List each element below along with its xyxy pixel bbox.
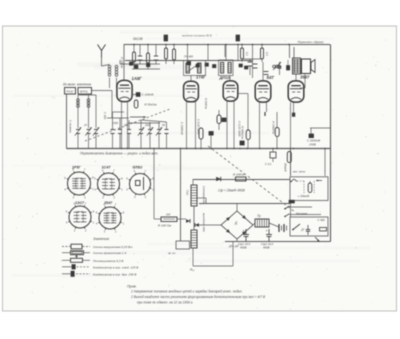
- svg-text:Сетка проволочная 1 А: Сетка проволочная 1 А: [93, 251, 126, 255]
- grid cap V1: [136, 93, 140, 97]
- wire TR1 to V5: [295, 74, 297, 81]
- wire y266: [193, 265, 233, 267]
- wire link row1: [107, 117, 129, 119]
- svg-text:зв. сн.: зв. сн.: [167, 252, 176, 255]
- wire left column: [66, 94, 68, 149]
- wire choke left: [253, 223, 255, 225]
- resistor R12: [287, 152, 291, 163]
- wire stub: [112, 112, 114, 118]
- resistor R2: [134, 100, 138, 108]
- capacitor C10 padder: [165, 129, 169, 131]
- capacitor blob C38: [245, 66, 248, 69]
- resistor R6: [173, 49, 176, 60]
- capacitor C20 electrolytic: [268, 229, 270, 234]
- svg-text:БПЧ1: БПЧ1: [80, 90, 88, 94]
- tube base diagram U4 1Э1Т: [69, 206, 91, 228]
- svg-text:56: 56: [162, 123, 165, 127]
- switch S3: [286, 214, 290, 217]
- svg-text:2W: 2W: [165, 213, 171, 217]
- IF transformer IFT2: [219, 60, 234, 76]
- wire screen link: [120, 63, 160, 65]
- svg-text:Сетевая обм.: Сетевая обм.: [202, 186, 206, 205]
- svg-text:выходная обм.: выходная обм.: [202, 213, 206, 232]
- terminal blob J1: [164, 35, 168, 41]
- wire link row2: [141, 120, 167, 122]
- wire chassis bus: [67, 148, 331, 150]
- resistor R11: [275, 128, 279, 137]
- diode D7: [195, 223, 199, 227]
- capacitor C6: [127, 129, 131, 131]
- wire IFT2 to V3: [229, 76, 231, 82]
- coil L2 antenna secondary: [115, 65, 118, 68]
- coil pack box K2: [78, 88, 92, 95]
- svg-text:3547: 3547: [104, 201, 113, 205]
- svg-text:анодное питание 90 В: анодное питание 90 В: [182, 34, 212, 38]
- wire V4 grid top: [262, 62, 264, 81]
- wire bridge bottom: [236, 239, 238, 242]
- diode D6: [186, 219, 190, 223]
- panel box PS1: [290, 177, 328, 201]
- svg-text:Конденсатор в кор. слюд. 125 В: Конденсатор в кор. слюд. 125 В: [93, 265, 138, 269]
- capacitor blob C34: [196, 64, 199, 67]
- capacitor C13d: [240, 141, 244, 145]
- dashed gang link: [85, 109, 170, 141]
- capacitor blob C30: [130, 62, 133, 65]
- svg-text:1А8Г: 1А8Г: [132, 76, 143, 81]
- coil L1 antenna primary: [108, 65, 111, 68]
- svg-text:2 Выход наиболее часто решени: 2 Выход наиболее часто решением форсиров…: [130, 295, 266, 299]
- svg-text:0,1: 0,1: [245, 52, 249, 56]
- capacitor C4: [111, 129, 115, 131]
- svg-text:1Т4Г: 1Т4Г: [196, 75, 206, 80]
- wire avc arrow: [130, 116, 146, 118]
- wire drop x290: [290, 149, 292, 177]
- switch S4: [293, 224, 300, 230]
- panel box PS2: [290, 217, 328, 236]
- wire choke right: [269, 223, 279, 227]
- wire link: [78, 94, 96, 96]
- legend paper cap symbol: [62, 273, 71, 275]
- wire B minus: [199, 203, 290, 205]
- wire box link: [92, 90, 113, 92]
- capacitor C3 trimmer: [94, 129, 98, 131]
- svg-text:бЛ5О: бЛ5О: [133, 166, 143, 170]
- wire V4 pin b: [266, 103, 268, 113]
- svg-text:Переключ—6(реж): Переключ—6(реж): [298, 40, 324, 44]
- wire IFT1 top left: [187, 44, 189, 61]
- svg-text:Тр: Тр: [257, 214, 261, 218]
- coil L3: [77, 95, 79, 128]
- wire mid tap: [197, 197, 206, 199]
- svg-text:ПЧ 465: ПЧ 465: [184, 55, 193, 59]
- wire TR1 lead a: [289, 45, 291, 59]
- capacitor C8 trimmer: [148, 129, 152, 131]
- capacitor C12: [154, 55, 158, 57]
- svg-text:б4Т: б4Т: [267, 75, 275, 80]
- wire link y123: [128, 122, 160, 124]
- svg-text:450В: 450В: [240, 246, 247, 250]
- wire V1 pin b: [127, 101, 129, 149]
- wire drop x290b: [290, 204, 292, 218]
- svg-text:R 500кОм: R 500кОм: [241, 126, 245, 139]
- wire bridge top: [236, 203, 238, 211]
- capacitor blob C31: [135, 65, 138, 68]
- svg-text:20мкФ: 20мкФ: [284, 162, 288, 172]
- svg-text:+ 20мкФ: + 20мкФ: [298, 194, 310, 198]
- vacuum tube V1 1А8Г: [117, 80, 132, 101]
- capacitor C18 below bus: [270, 152, 276, 158]
- svg-text:Переключатель диапазонов — уко: Переключатель диапазонов — укороч. и под…: [80, 152, 158, 156]
- svg-text:Сетка нагрузочная 0,25 Вт: Сетка нагрузочная 0,25 Вт: [93, 245, 133, 249]
- choke TR2: [255, 219, 269, 227]
- wire L1 bottom: [109, 78, 111, 89]
- bridge rectifier VD1-VD4: [221, 211, 253, 239]
- capacitor blob C32: [147, 64, 150, 67]
- svg-text:С 0,05 300В: С 0,05 300В: [197, 119, 201, 135]
- capacitor blob C23: [289, 200, 294, 203]
- wire drop x325: [324, 148, 326, 176]
- wire IFT1 to V2: [190, 76, 192, 82]
- switch S2: [286, 206, 290, 209]
- inductor W2: [191, 230, 197, 248]
- capacitor C2 trimmer: [87, 129, 91, 131]
- wire L1 top: [102, 65, 110, 67]
- capacitor blob C37: [239, 64, 242, 67]
- capacitor C14: [248, 61, 253, 63]
- svg-text:1 Напряжение питания анодных: 1 Напряжение питания анодных цепей и зар…: [131, 290, 243, 294]
- grid blob: [222, 118, 226, 122]
- resistor R8: [241, 48, 244, 59]
- coil pack box K1: [65, 88, 76, 95]
- wire heater drop: [153, 148, 155, 219]
- svg-text:+: +: [266, 229, 268, 233]
- vacuum tube V3 6Г7: [223, 81, 238, 101]
- svg-text:Д1—Д4: Д1—Д4: [228, 244, 239, 248]
- wire screen rail y60: [125, 60, 253, 62]
- svg-text:бА10В: бА10В: [133, 37, 143, 41]
- capacitor C9 trimmer: [157, 129, 161, 131]
- capacitor C21 electrolytic: [308, 183, 312, 193]
- svg-text:батарея: батарея: [296, 212, 308, 216]
- svg-text:Потенциометр 6,3 В: Потенциометр 6,3 В: [93, 259, 123, 263]
- capacitor C22: [307, 225, 309, 229]
- wire V3 pin a: [226, 101, 228, 148]
- wire L2 bottom: [116, 78, 118, 89]
- vacuum tube V5 3547: [288, 81, 304, 102]
- wire link2: [132, 68, 160, 70]
- wire drop x180: [180, 149, 182, 242]
- svg-text:Конденсатор в кор. бум. 250 В: Конденсатор в кор. бум. 250 В: [93, 272, 136, 276]
- capacitor C19 electrolytic: [245, 229, 247, 234]
- diode D5: [216, 177, 220, 181]
- output transformer TR1: [293, 58, 301, 74]
- wire IFT2 top: [225, 44, 227, 60]
- coil L5: [95, 95, 97, 128]
- svg-text:1Э1Т: 1Э1Т: [75, 201, 85, 205]
- wire V1 pin a: [121, 101, 123, 149]
- antenna W1: [101, 51, 103, 58]
- wire ps1 dash a: [303, 181, 305, 193]
- svg-text:30: 30: [124, 123, 127, 127]
- tube base diagram U5 3547: [99, 207, 121, 229]
- svg-text:3547: 3547: [300, 75, 310, 80]
- wire bottom return: [225, 241, 331, 243]
- capacitor C17: [309, 134, 314, 138]
- resistor R16: [320, 228, 327, 231]
- svg-text:R 1МОм: R 1МОм: [120, 57, 124, 68]
- svg-text:дл.волн. антенна: дл.волн. антенна: [63, 83, 91, 87]
- wire w2 bottom: [192, 248, 194, 266]
- svg-text:С 400: С 400: [318, 218, 326, 222]
- wire B rectified: [193, 179, 290, 181]
- capacitor C39: [279, 62, 281, 66]
- svg-text:150В: 150В: [309, 143, 316, 147]
- capacitor blob C36: [213, 65, 216, 68]
- svg-text:200: 200: [144, 123, 150, 127]
- svg-text:R 150кОм: R 150кОм: [272, 121, 276, 134]
- legend wirewound symbol: [62, 252, 70, 254]
- capacitor C7 osc tuning: [139, 129, 143, 131]
- tube base diagram U1 1Р5Г: [68, 172, 91, 195]
- svg-text:С 0,1: С 0,1: [265, 162, 272, 166]
- coil L6 w/ arrow: [273, 65, 276, 68]
- inductor W1 ballast: [191, 185, 197, 206]
- wire stub x225: [224, 44, 226, 57]
- svg-text:1500: 1500: [112, 121, 118, 125]
- wire grid feed x252: [252, 44, 254, 78]
- svg-text:С 100пФ: С 100пФ: [142, 93, 155, 97]
- capacitor C13c: [209, 132, 213, 136]
- wire arrow out: [315, 237, 320, 242]
- resistor R10: [246, 130, 250, 140]
- resistor R7b: [199, 128, 203, 139]
- wire ps1 arrow: [316, 180, 322, 182]
- wire y128 right: [310, 127, 330, 129]
- vacuum tube V4 1б4Т: [255, 81, 271, 102]
- svg-text:R 160 Ом: R 160 Ом: [158, 224, 171, 228]
- node junctions top rail: [133, 44, 135, 46]
- wire fuse right: [177, 218, 186, 220]
- svg-text:R 50кОм: R 50кОм: [145, 103, 157, 107]
- wire B+ top bus: [124, 44, 330, 46]
- resistor R9: [261, 48, 264, 59]
- resistor R7a: [217, 115, 221, 124]
- svg-text:ПЧ1Г: ПЧ1Г: [66, 90, 74, 94]
- resistor R14 fuse: [161, 217, 177, 222]
- svg-text:450В: 450В: [263, 246, 270, 250]
- svg-text:0,5: 0,5: [265, 52, 269, 56]
- wire V2 pin a: [186, 102, 188, 148]
- capacitor C15: [253, 63, 258, 65]
- svg-text:при токе по обмот. на 12 за 19: при токе по обмот. на 12 за 1954 г.: [137, 301, 193, 305]
- capacitor C16: [264, 71, 269, 73]
- svg-text:С диапаз.: С диапаз.: [69, 120, 73, 134]
- vacuum tube V2 1Т4Г: [184, 81, 199, 102]
- wire bridge left: [199, 224, 221, 226]
- svg-text:Сф = 20мкФ 450В: Сф = 20мкФ 450В: [218, 189, 246, 193]
- wire V1 plate: [123, 44, 125, 81]
- wire V2 pin b: [195, 102, 197, 148]
- wire ps1 dash b: [313, 181, 315, 193]
- svg-text:15: 15: [84, 123, 87, 127]
- dashed switch link: [208, 146, 295, 212]
- wire stub x208: [207, 45, 209, 61]
- svg-text:Прим.: Прим.: [127, 285, 137, 289]
- svg-text:R 2МОм: R 2МОм: [204, 98, 208, 109]
- resistor R4: [147, 53, 150, 63]
- wire right-edge vertical: [330, 45, 332, 242]
- IF transformer IFT1: [184, 61, 206, 76]
- wire V5 pin b: [293, 103, 295, 114]
- wire antenna lead: [101, 58, 103, 67]
- wire TR1 lead b: [293, 47, 295, 58]
- terminal blob J2: [236, 35, 240, 41]
- svg-text:2Г: 2Г: [300, 228, 305, 232]
- capacitor C11: [138, 55, 142, 57]
- wire V3 pin b: [233, 101, 235, 148]
- wire ps1 line: [297, 180, 304, 182]
- wire V4 pin a: [259, 103, 261, 149]
- wire V3 plate: [238, 93, 248, 95]
- resistor R5: [165, 48, 168, 59]
- wire x233 up: [232, 242, 234, 267]
- svg-text:С 200: С 200: [103, 112, 107, 120]
- svg-text:ДП10: ДП10: [219, 75, 231, 80]
- svg-text:1С4Т: 1С4Т: [102, 166, 112, 170]
- terminal box X1: [176, 241, 190, 249]
- capacitor blob C33: [187, 62, 191, 65]
- capacitor blob C40: [287, 66, 290, 71]
- legend resistor symbol: [62, 246, 71, 248]
- node junctions chassis bus: [121, 148, 123, 150]
- capacitor C5: [118, 129, 122, 131]
- tube base diagram U2 1С4Т: [98, 173, 120, 195]
- resistor R13: [236, 177, 247, 181]
- legend potentiometer symbol: [62, 259, 70, 261]
- capacitor C1 tuning: [76, 129, 80, 131]
- coil L4: [88, 95, 90, 128]
- capacitor blob C35: [205, 63, 208, 66]
- wire stub x238: [237, 44, 239, 60]
- battery GB1: [278, 224, 280, 232]
- svg-text:+: +: [243, 229, 245, 233]
- wire V5 pin a: [290, 103, 292, 149]
- wire speaker return: [304, 74, 306, 89]
- tube base diagram U3 6Л5О: [130, 174, 151, 195]
- wire link: [242, 58, 262, 60]
- svg-text:С 3300пФ: С 3300пФ: [180, 122, 184, 136]
- wire W1-W2: [193, 206, 195, 230]
- switch S1: [291, 179, 294, 182]
- wire w1 link: [192, 179, 194, 185]
- svg-text:Сел.: Сел.: [186, 190, 190, 196]
- svg-text:R 1МОм: R 1МОм: [233, 173, 245, 177]
- legend mica cap symbol: [62, 266, 72, 268]
- svg-text:Значения:: Значения:: [93, 237, 110, 241]
- svg-text:1Р5Г: 1Р5Г: [72, 166, 82, 170]
- svg-text:вкл. сети: вкл. сети: [293, 171, 306, 174]
- speaker LS1: [302, 59, 311, 74]
- wire fuse left: [154, 218, 161, 220]
- resistor R3: [133, 52, 136, 62]
